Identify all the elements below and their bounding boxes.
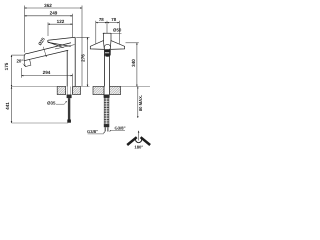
svg-text:78: 78 [99,17,104,22]
counter deck cross-section (front view) [93,87,121,95]
svg-text:G3/8": G3/8" [87,129,98,134]
swivel range symbol 180 degrees [127,131,150,145]
mounting nut below deck (front view) [104,95,110,98]
handle knob (front view) [104,45,110,57]
dimension 226 (height to lever top) [76,37,89,86]
svg-text:294: 294 [43,70,51,75]
spout (side view) [24,43,75,67]
top cap (front view) [103,33,111,41]
deck reference line (front view) [121,86,151,88]
lever handle (side view) [48,37,76,47]
svg-text:78: 78 [111,17,116,22]
svg-text:340: 340 [131,59,136,67]
threaded shank below deck (side view) [67,87,72,123]
dimension 78 / 78 [96,21,120,44]
dimension 122 [48,22,73,36]
svg-text:122: 122 [57,19,65,24]
svg-text:80 MAX.: 80 MAX. [138,95,143,111]
svg-text:362: 362 [44,3,52,8]
counter deck cross-section (side view) [57,87,80,95]
svg-text:441: 441 [5,102,10,110]
spout wings seen from front [90,41,124,50]
svg-text:Ø35: Ø35 [47,101,56,106]
svg-text:180°: 180° [134,144,143,149]
deck surface reference lines (side view) [12,87,90,124]
svg-text:175: 175 [4,62,9,70]
dimension 294 [22,68,73,86]
dimension 362 [25,6,83,87]
dimension 340 (height above deck) [126,43,139,87]
hose end nuts [104,124,110,131]
body column (side view) [67,37,75,86]
svg-text:249: 249 [50,10,58,15]
left vertical dimensions 175 / 441 [12,55,25,123]
svg-text:20°: 20° [16,59,23,64]
dimension 80 MAX (mounting depth) [137,87,139,119]
svg-text:G3/8": G3/8" [115,125,126,130]
svg-text:Ø50: Ø50 [113,28,122,33]
dimension 249 [25,14,73,37]
column (front view) [104,49,109,87]
flexible supply hoses (front view) [104,98,109,124]
svg-text:276: 276 [81,54,86,62]
label Ø25 (spout diameter, rotated leader) [37,36,46,46]
